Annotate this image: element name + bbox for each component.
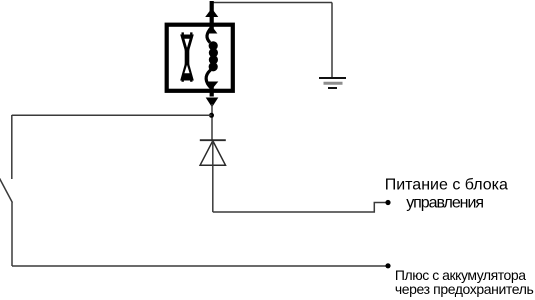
switch S1 blade xyxy=(0,176,12,203)
fan/motor symbol (hourglass) inside relay xyxy=(180,32,194,81)
arrow up (inside box top) xyxy=(206,26,217,34)
arrow up (outside box top) xyxy=(205,8,218,17)
wire: lower horizontal to control terminal xyxy=(213,203,388,213)
relay U1 box xyxy=(167,25,233,91)
wire: left vertical lower xyxy=(11,202,13,266)
wire: through diode down xyxy=(212,141,214,212)
coil L1 of relay xyxy=(209,41,218,71)
wire: bottom horizontal to battery terminal xyxy=(12,265,388,267)
wire: left vertical upper xyxy=(11,115,13,179)
terminal node: control unit feed xyxy=(385,200,390,205)
ground symbol xyxy=(319,78,346,88)
svg-text:управления: управления xyxy=(406,194,483,211)
arrow down (inside box bottom) xyxy=(206,82,219,90)
arrow down (below box) xyxy=(206,98,219,108)
wire: vertical drop to ground xyxy=(331,3,333,79)
terminal node: battery plus xyxy=(385,263,390,268)
wire: relay bottom to diode xyxy=(211,104,213,140)
wavy segment around coil xyxy=(206,27,212,89)
diode D1 xyxy=(200,140,226,165)
junction node dot xyxy=(209,113,214,118)
svg-text:Питание с блока: Питание с блока xyxy=(385,177,508,194)
wire: middle horizontal to switch branch xyxy=(12,114,212,116)
relay wire vertical thick through box xyxy=(210,1,214,97)
wire: top horizontal from relay to ground drop xyxy=(212,2,332,4)
svg-text:через предохранитель: через предохранитель xyxy=(395,281,534,297)
